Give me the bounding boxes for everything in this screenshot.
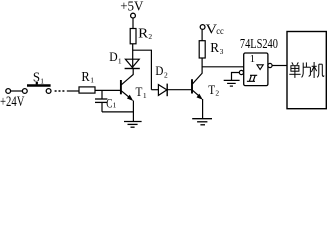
svg-text:+24V: +24V xyxy=(0,94,25,110)
transistor T2 xyxy=(192,73,203,100)
terminal +5V circle xyxy=(131,13,136,18)
wire R3 node to 74LS240 input xyxy=(202,66,244,68)
wire output to MCU xyxy=(272,65,287,67)
svg-text:R: R xyxy=(81,70,90,85)
wire branch junction to D2 drop xyxy=(133,50,152,89)
单 xyxy=(292,62,299,65)
resistor R1 xyxy=(79,87,95,93)
机 xyxy=(313,62,315,78)
transistor T1 xyxy=(121,75,133,102)
diode D1 xyxy=(125,59,140,68)
svg-text:1: 1 xyxy=(118,56,122,65)
svg-text:1: 1 xyxy=(250,54,255,65)
IC U1 output bubble xyxy=(268,63,272,67)
wire R2 top xyxy=(132,18,134,28)
svg-text:2: 2 xyxy=(215,89,219,98)
svg-text:2: 2 xyxy=(148,32,152,41)
switch S1 left terminal xyxy=(22,89,27,94)
svg-text:74LS240: 74LS240 xyxy=(240,37,278,52)
wire enable to ground xyxy=(232,73,240,81)
svg-text:cc: cc xyxy=(216,26,224,36)
svg-text:D: D xyxy=(109,49,117,64)
svg-text:+5V: +5V xyxy=(120,0,143,15)
wire R3 top xyxy=(201,30,203,41)
IC U1 enable bubble xyxy=(239,70,243,74)
svg-text:R: R xyxy=(138,26,149,41)
svg-text:D: D xyxy=(155,63,163,78)
IC U1 hysteresis symbol xyxy=(247,75,257,81)
wire T1 collector up xyxy=(132,69,134,75)
resistor R3 xyxy=(199,41,205,58)
wire to D2 anode xyxy=(151,89,158,91)
terminal circle left xyxy=(6,89,11,94)
wire C1 bottom xyxy=(101,103,103,112)
svg-text:1: 1 xyxy=(143,91,147,100)
svg-text:S: S xyxy=(33,71,40,86)
wire T2 emitter down xyxy=(202,99,204,119)
wire T2 collector up xyxy=(201,58,203,73)
svg-text:T: T xyxy=(136,85,143,99)
wire xyxy=(11,90,23,92)
svg-text:R: R xyxy=(210,41,219,56)
wire T1 emitter down xyxy=(132,101,134,122)
wire D1 anode up to R2 xyxy=(132,44,134,69)
svg-text:C: C xyxy=(106,96,112,111)
ground under T1 xyxy=(124,122,142,128)
ground at enable pin xyxy=(224,80,240,86)
svg-text:1: 1 xyxy=(113,101,117,110)
wire xyxy=(67,90,79,92)
IC U1 amplifier triangle xyxy=(257,65,263,70)
svg-text:1: 1 xyxy=(90,76,94,85)
wire R1 to T1 base xyxy=(95,89,120,91)
capacitor C1 xyxy=(95,98,107,100)
wire dotted cable xyxy=(55,90,65,92)
片 xyxy=(302,63,304,78)
wire bottom rail to ground xyxy=(102,111,133,113)
svg-text:1: 1 xyxy=(40,76,44,85)
MCU label 单片机 xyxy=(289,62,324,78)
diode D2 xyxy=(158,84,167,97)
switch S1 right terminal xyxy=(46,89,51,94)
terminal Vcc circle xyxy=(200,25,205,30)
MCU box xyxy=(287,32,326,109)
wire C1 tap xyxy=(101,90,103,98)
svg-text:3: 3 xyxy=(220,47,224,56)
svg-text:2: 2 xyxy=(164,70,168,79)
ground under T2 xyxy=(192,119,212,125)
IC U1 74LS240 box xyxy=(244,53,268,86)
wire D2 to T2 base xyxy=(167,89,191,91)
svg-text:T: T xyxy=(208,83,215,97)
switch S1 bar xyxy=(27,84,51,86)
resistor R2 xyxy=(130,29,136,44)
